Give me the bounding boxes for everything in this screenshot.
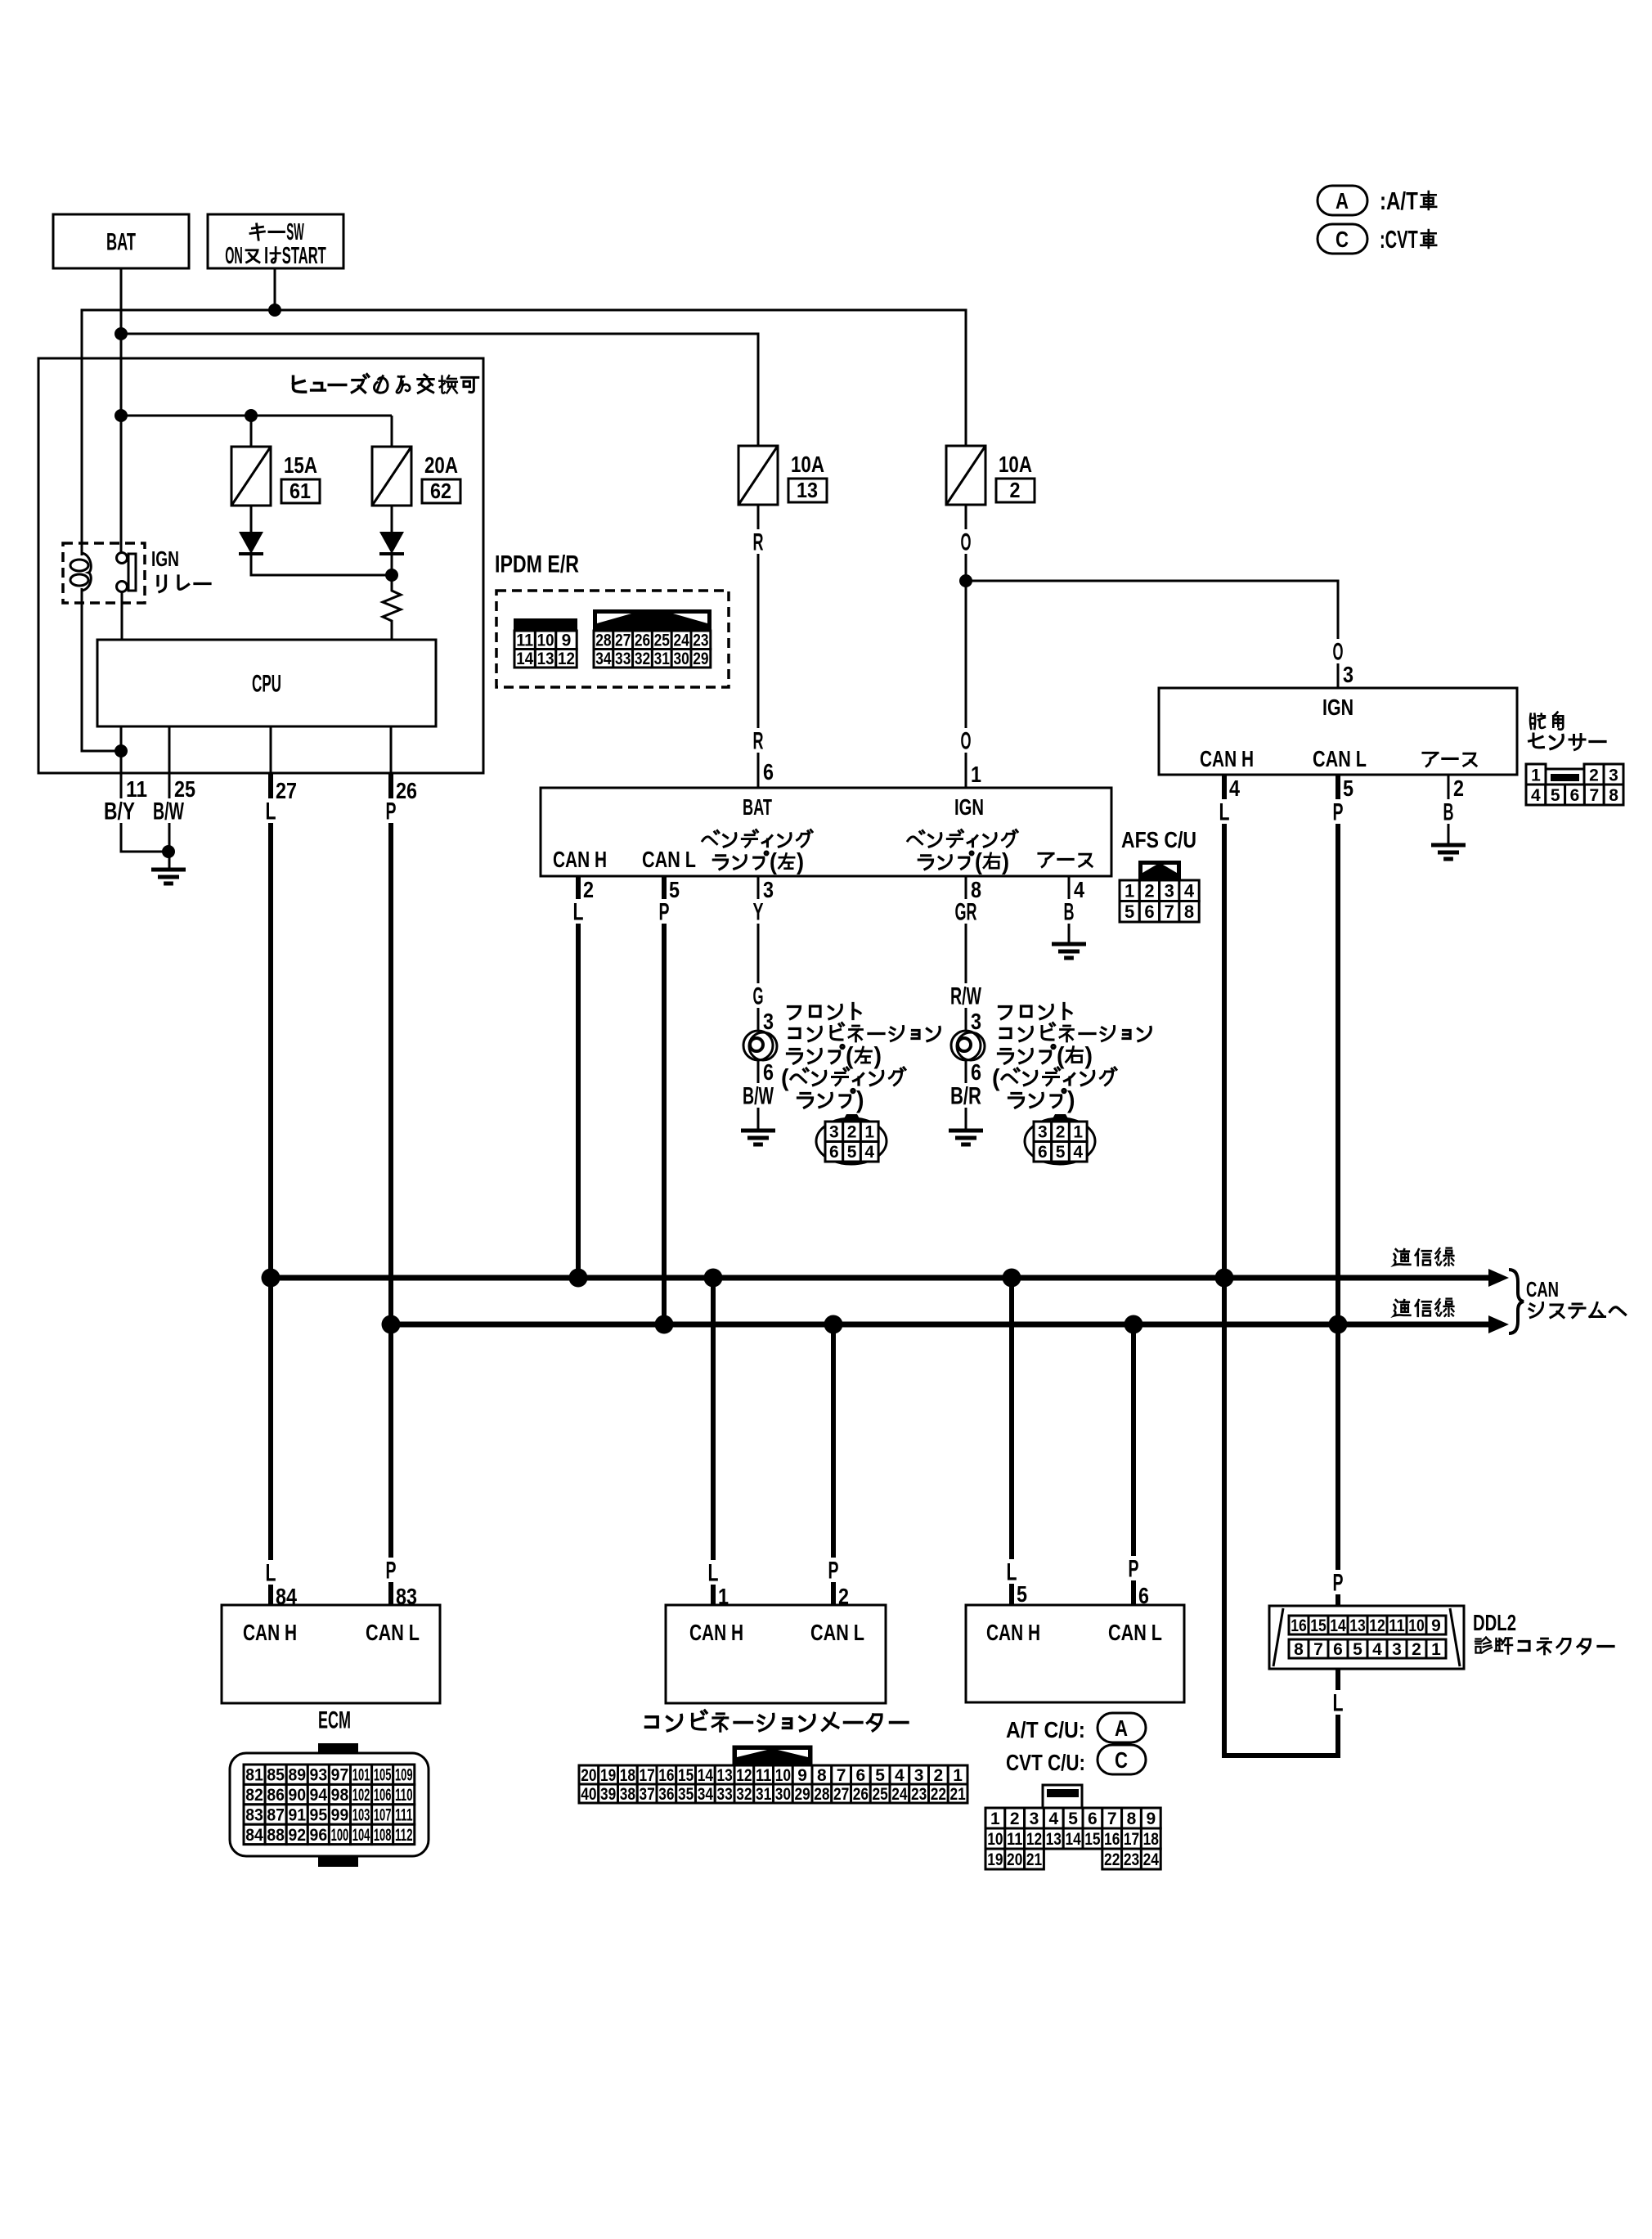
svg-text:35: 35 — [678, 1785, 694, 1804]
svg-text:33: 33 — [615, 650, 631, 668]
svg-text:L: L — [1333, 1690, 1344, 1717]
wire pin 27 inside — [270, 726, 272, 773]
svg-text:17: 17 — [640, 1766, 655, 1785]
svg-text:14: 14 — [1065, 1830, 1081, 1849]
pill A — [1098, 1713, 1146, 1742]
svg-text:2: 2 — [1010, 478, 1021, 502]
svg-text:B/W: B/W — [153, 798, 184, 825]
svg-text:3: 3 — [914, 1766, 924, 1785]
svg-text:B: B — [1064, 899, 1075, 926]
wire relay coil return — [82, 588, 121, 751]
svg-text:4: 4 — [864, 1143, 874, 1162]
svg-text:IPDM E/R: IPDM E/R — [495, 551, 579, 578]
svg-text:32: 32 — [736, 1785, 752, 1804]
svg-text:96: 96 — [310, 1826, 328, 1845]
svg-text:2: 2 — [1056, 1123, 1066, 1142]
svg-text:CAN L: CAN L — [366, 1620, 420, 1645]
svg-text:P: P — [1129, 1556, 1139, 1583]
svg-text:111: 111 — [395, 1806, 413, 1825]
IPDM dashed box — [496, 591, 729, 687]
pill C — [1098, 1745, 1146, 1774]
svg-text:12: 12 — [1026, 1830, 1042, 1849]
svg-text:100: 100 — [331, 1826, 349, 1845]
svg-text:12: 12 — [736, 1766, 752, 1785]
label L above A/T — [1003, 1559, 1021, 1584]
svg-text:24: 24 — [673, 632, 689, 650]
svg-text:8: 8 — [1184, 901, 1194, 922]
wire meter CAN L (P) — [831, 1324, 836, 1605]
svg-text:20A: 20A — [424, 452, 458, 478]
svg-text:6: 6 — [1138, 1583, 1149, 1608]
svg-text:2: 2 — [1453, 776, 1464, 801]
svg-text:11: 11 — [1007, 1830, 1023, 1849]
svg-text:6: 6 — [763, 759, 774, 785]
label O steering drop — [1330, 639, 1347, 663]
svg-text:82: 82 — [245, 1786, 263, 1805]
svg-text:7: 7 — [837, 1766, 846, 1785]
label B steering — [1440, 799, 1457, 824]
fuse 20A no.62 — [372, 447, 411, 506]
svg-text:99: 99 — [331, 1806, 349, 1825]
junction diodes — [385, 569, 398, 582]
svg-text:CAN H: CAN H — [553, 847, 607, 872]
lamp bulb left — [743, 1031, 773, 1060]
svg-text:8: 8 — [1127, 1810, 1137, 1828]
svg-text:39: 39 — [600, 1785, 616, 1804]
svg-text:103: 103 — [352, 1806, 370, 1825]
meter connector — [579, 1765, 599, 1784]
wire B to ground AFS — [1068, 876, 1071, 944]
svg-text:2: 2 — [583, 877, 594, 902]
wire diode D2 down — [391, 554, 393, 575]
label tsushinsen upper — [1394, 1249, 1411, 1265]
label combination meter — [646, 1717, 658, 1727]
key switch ON/START — [208, 214, 343, 268]
lamp bulb right — [951, 1031, 981, 1060]
svg-text:29: 29 — [693, 650, 708, 668]
svg-text:3: 3 — [1165, 881, 1174, 901]
svg-text:1: 1 — [971, 762, 981, 787]
svg-text:BAT: BAT — [743, 794, 772, 820]
fuse 10A no.2 — [946, 446, 985, 505]
svg-text:20: 20 — [581, 1766, 596, 1785]
label B/R lamp right — [947, 1083, 985, 1108]
svg-text:23: 23 — [911, 1785, 927, 1804]
fuse block box (fuses-only-replaceable) — [38, 358, 483, 773]
svg-text:O: O — [961, 728, 972, 755]
svg-text:1: 1 — [1125, 881, 1134, 901]
svg-text:3: 3 — [1392, 1640, 1402, 1659]
svg-text:L: L — [1007, 1559, 1017, 1586]
svg-text:B/R: B/R — [950, 1083, 981, 1110]
svg-text:87: 87 — [267, 1806, 285, 1825]
label Y — [750, 899, 767, 924]
svg-text:ECM: ECM — [318, 1707, 351, 1734]
svg-text:P: P — [386, 798, 397, 825]
svg-text:4: 4 — [1048, 1810, 1058, 1828]
wire diode D1 to junction — [251, 554, 392, 575]
label P above A/T — [1125, 1556, 1142, 1580]
combination meter box — [666, 1605, 886, 1703]
wire BAT down — [120, 268, 123, 416]
svg-text:9: 9 — [1146, 1810, 1156, 1828]
label P above ECM — [383, 1558, 400, 1582]
svg-text:5: 5 — [875, 1766, 885, 1785]
svg-text:16: 16 — [658, 1766, 674, 1785]
svg-text:4: 4 — [895, 1766, 905, 1785]
brace to CAN system — [1509, 1270, 1524, 1333]
junction ground — [162, 845, 175, 858]
svg-text:97: 97 — [331, 1766, 349, 1785]
wire steering earth — [1448, 775, 1450, 845]
svg-text:CAN: CAN — [1526, 1277, 1559, 1302]
svg-text:7: 7 — [1165, 901, 1174, 922]
junction CAN H x1237 — [1003, 1269, 1021, 1288]
junction 15A tap — [245, 409, 258, 422]
wire R fuse13 to AFS BAT — [757, 505, 760, 788]
svg-text:37: 37 — [640, 1785, 655, 1804]
svg-text:P: P — [659, 899, 670, 926]
svg-text:90: 90 — [288, 1786, 306, 1805]
svg-text:106: 106 — [374, 1786, 392, 1805]
wire pin 25 — [168, 726, 171, 773]
svg-text:P: P — [386, 1558, 397, 1585]
wire BAT feed inside fuse block — [121, 415, 392, 417]
svg-text:1: 1 — [1431, 1640, 1441, 1659]
svg-text:L: L — [1219, 799, 1230, 826]
wire 20A to diode — [391, 506, 393, 533]
svg-text:7: 7 — [1313, 1640, 1323, 1659]
label B/W lamp left — [739, 1083, 777, 1108]
svg-text:CAN L: CAN L — [810, 1620, 864, 1645]
junction key-SW — [268, 303, 281, 317]
svg-text:18: 18 — [620, 1766, 636, 1785]
svg-text:IGN: IGN — [954, 794, 984, 820]
power source BAT — [53, 214, 189, 268]
label P steering — [1330, 799, 1347, 824]
label O below fuse — [958, 529, 975, 554]
label earth AFS — [1039, 853, 1053, 866]
wire AFS CAN H (L) — [576, 876, 581, 1278]
svg-text:(: ( — [781, 1065, 789, 1092]
wire Y to left lamp — [757, 876, 760, 1032]
svg-text:92: 92 — [288, 1826, 306, 1845]
svg-text:93: 93 — [310, 1766, 328, 1785]
ECM box — [222, 1605, 440, 1703]
svg-text:27: 27 — [615, 632, 631, 650]
svg-text:CAN H: CAN H — [986, 1620, 1040, 1645]
svg-text:L: L — [708, 1560, 719, 1587]
ground CPU — [151, 868, 186, 872]
svg-text:6: 6 — [1088, 1810, 1098, 1828]
diode D1 — [239, 532, 263, 554]
wire BAT to relay contact — [120, 416, 123, 553]
svg-text:3: 3 — [763, 1009, 774, 1034]
junction CAN L x1633 — [1329, 1315, 1348, 1334]
wire pin 11 — [120, 726, 123, 773]
svg-text:4: 4 — [1074, 877, 1084, 902]
svg-text::A/T: :A/T — [1380, 187, 1418, 215]
CAN H arrowhead — [1488, 1269, 1509, 1287]
svg-text:31: 31 — [654, 650, 671, 668]
svg-text:R: R — [753, 529, 764, 556]
svg-text:IGN: IGN — [151, 546, 179, 571]
svg-text:14: 14 — [516, 650, 533, 668]
AFS control unit box — [541, 788, 1111, 876]
svg-text:1: 1 — [864, 1123, 874, 1142]
label tsushinsen lower — [1394, 1300, 1411, 1315]
svg-text:95: 95 — [310, 1806, 328, 1825]
svg-text:28: 28 — [595, 632, 612, 650]
svg-text:): ) — [797, 848, 804, 874]
wire A/T CAN L (P) — [1131, 1324, 1136, 1605]
wire bulb right to ground — [965, 1059, 967, 1131]
svg-text:13: 13 — [717, 1766, 733, 1785]
wire CAN L from CPU pin 26 (P) — [388, 773, 393, 1605]
A/T CVT control unit box — [966, 1605, 1184, 1702]
svg-text:8: 8 — [1294, 1640, 1304, 1659]
svg-text:13: 13 — [537, 650, 554, 668]
label bending lamp right — [908, 830, 924, 843]
junction CAN H x872 — [704, 1269, 723, 1288]
junction CAN L x1019 — [824, 1315, 843, 1334]
svg-text:1: 1 — [953, 1766, 963, 1785]
label B/W — [150, 798, 187, 823]
svg-text:10A: 10A — [791, 452, 824, 477]
svg-text:2: 2 — [1144, 881, 1154, 901]
IPDM connector A — [514, 619, 577, 631]
svg-text:101: 101 — [352, 1766, 370, 1785]
svg-text:88: 88 — [267, 1826, 285, 1845]
svg-text:10A: 10A — [999, 452, 1032, 477]
svg-text:38: 38 — [620, 1785, 636, 1804]
svg-text:25: 25 — [654, 632, 671, 650]
svg-text:40: 40 — [581, 1785, 596, 1804]
svg-text:2: 2 — [838, 1584, 849, 1609]
wire A/T CAN H (L) — [1009, 1278, 1014, 1605]
svg-text:4: 4 — [1531, 786, 1541, 805]
svg-text:3: 3 — [971, 1009, 981, 1034]
junction CAN H x707 — [569, 1269, 588, 1288]
svg-text:6: 6 — [1144, 901, 1154, 922]
svg-text:84: 84 — [245, 1826, 263, 1845]
steering sensor connector — [1526, 764, 1546, 785]
label steering angle sensor — [1530, 714, 1545, 729]
junction CAN L x1386 — [1125, 1315, 1143, 1334]
junction CAN L x478 — [382, 1315, 401, 1334]
svg-text:26: 26 — [635, 632, 650, 650]
svg-text:30: 30 — [673, 650, 689, 668]
svg-text:108: 108 — [374, 1826, 392, 1845]
svg-text:6: 6 — [1038, 1143, 1048, 1162]
svg-text:15: 15 — [678, 1766, 694, 1785]
svg-text:19: 19 — [600, 1766, 616, 1785]
label GR — [952, 899, 981, 924]
legend pill A (A/T) — [1318, 186, 1367, 215]
junction CAN L x812 — [655, 1315, 674, 1334]
svg-text:5: 5 — [847, 1143, 857, 1162]
svg-text:1: 1 — [1531, 767, 1541, 785]
svg-text:109: 109 — [395, 1766, 413, 1785]
svg-text:14: 14 — [698, 1766, 714, 1785]
svg-text:9: 9 — [562, 632, 572, 650]
svg-text::CVT: :CVT — [1380, 225, 1418, 254]
svg-text:12: 12 — [1369, 1616, 1385, 1635]
svg-text:10: 10 — [987, 1830, 1003, 1849]
CAN L bus line — [391, 1322, 1492, 1328]
svg-text:4: 4 — [1073, 1143, 1083, 1162]
svg-text:5: 5 — [1068, 1810, 1078, 1828]
label bending lamp left — [703, 830, 719, 843]
svg-text:(: ( — [770, 848, 778, 874]
svg-text:): ) — [1002, 848, 1009, 874]
svg-text:CAN L: CAN L — [1313, 746, 1367, 771]
svg-text:84: 84 — [276, 1584, 297, 1609]
label P — [383, 798, 400, 823]
svg-text:(: ( — [846, 1043, 854, 1070]
junction CAN H x331 — [262, 1269, 281, 1288]
svg-text:(: ( — [1057, 1043, 1065, 1070]
svg-text:83: 83 — [396, 1584, 417, 1609]
svg-text:O: O — [961, 529, 972, 556]
label fuse block — [294, 376, 306, 392]
svg-text:CAN L: CAN L — [642, 847, 696, 872]
svg-text:): ) — [856, 1087, 864, 1114]
label L above meter — [705, 1560, 722, 1585]
svg-text:(: ( — [992, 1065, 1000, 1092]
svg-text:P: P — [828, 1558, 839, 1585]
A/T connector tab — [1043, 1785, 1082, 1808]
svg-text:15A: 15A — [284, 452, 317, 478]
svg-text:C: C — [1115, 1747, 1128, 1773]
label L above ECM — [263, 1560, 280, 1585]
svg-text:83: 83 — [245, 1806, 263, 1825]
svg-text:11: 11 — [1389, 1616, 1405, 1635]
ground AFS — [1052, 942, 1086, 946]
svg-text:102: 102 — [352, 1786, 370, 1805]
svg-text:P: P — [1333, 1570, 1344, 1597]
svg-text:16: 16 — [1291, 1616, 1307, 1635]
AFS C/U connector — [1139, 861, 1180, 880]
wire meter CAN H (L) — [711, 1278, 716, 1605]
svg-text:R/W: R/W — [950, 983, 981, 1010]
svg-text:CPU: CPU — [252, 671, 281, 698]
svg-text:3: 3 — [829, 1123, 839, 1142]
svg-text:10: 10 — [1408, 1616, 1425, 1635]
svg-text:1: 1 — [718, 1584, 729, 1609]
svg-text:22: 22 — [931, 1785, 946, 1804]
svg-text:O: O — [1333, 639, 1344, 666]
svg-text:C: C — [1336, 227, 1349, 252]
svg-text:R: R — [753, 728, 764, 755]
svg-text:104: 104 — [352, 1826, 370, 1845]
CAN H bus line — [271, 1275, 1492, 1281]
svg-text:18: 18 — [1143, 1830, 1160, 1849]
relay coil — [70, 560, 88, 571]
svg-text:30: 30 — [775, 1785, 791, 1804]
label R below fuse — [750, 529, 767, 554]
svg-text:7: 7 — [1589, 786, 1599, 805]
svg-text:3: 3 — [763, 877, 774, 902]
svg-text:): ) — [1067, 1087, 1075, 1114]
svg-text:12: 12 — [558, 650, 575, 668]
svg-text:5: 5 — [669, 877, 680, 902]
ECM connector — [318, 1743, 358, 1754]
wire GR to right lamp — [965, 876, 967, 1032]
svg-text:1: 1 — [1073, 1123, 1083, 1142]
svg-text:24: 24 — [1143, 1850, 1160, 1869]
svg-text:GR: GR — [955, 899, 977, 926]
svg-text:24: 24 — [891, 1785, 908, 1804]
svg-text:L: L — [266, 798, 276, 825]
svg-text:1: 1 — [990, 1810, 1000, 1828]
lamp connector right oval — [1025, 1118, 1095, 1164]
svg-text:112: 112 — [395, 1826, 413, 1845]
svg-text:6: 6 — [763, 1059, 774, 1085]
svg-text:CVT C/U:: CVT C/U: — [1006, 1750, 1085, 1775]
label L steering — [1216, 799, 1233, 824]
svg-text:61: 61 — [290, 479, 311, 503]
label front combination lamp left — [788, 1007, 801, 1019]
label front combination lamp right — [999, 1007, 1012, 1019]
wire AFS CAN L (P) — [662, 876, 667, 1324]
wire BAT bus to fuse 13 — [121, 334, 758, 446]
label R above AFS — [750, 728, 767, 753]
svg-text:4: 4 — [1229, 776, 1240, 801]
svg-text:G: G — [753, 983, 764, 1010]
svg-text:5: 5 — [1551, 786, 1560, 805]
svg-text:2: 2 — [1589, 767, 1599, 785]
svg-text:START: START — [282, 242, 326, 268]
svg-text:B: B — [1443, 799, 1454, 826]
wire B/Y to ground — [121, 773, 168, 852]
wire 15A drop — [250, 416, 253, 447]
svg-text:3: 3 — [1030, 1810, 1039, 1828]
svg-text:P: P — [1333, 799, 1344, 826]
A/T connector — [985, 1808, 1005, 1828]
wire bulb left to ground — [757, 1059, 760, 1131]
svg-text:BAT: BAT — [106, 229, 136, 256]
wire O branch to steering IGN box — [966, 581, 1338, 688]
svg-text:15: 15 — [1084, 1830, 1101, 1849]
svg-text:22: 22 — [1104, 1850, 1120, 1869]
svg-text:62: 62 — [430, 479, 451, 503]
IGN relay dashed box — [63, 543, 145, 603]
fuse 15A no.61 — [231, 447, 271, 506]
svg-text:6: 6 — [829, 1143, 839, 1162]
svg-text:6: 6 — [1570, 786, 1580, 805]
svg-text:4: 4 — [1184, 881, 1195, 901]
wire O fuse2 to AFS IGN — [965, 505, 967, 788]
svg-text:5: 5 — [1125, 901, 1134, 922]
wire steering CAN H (L) — [1222, 775, 1227, 1278]
label P above DDL2 — [1330, 1570, 1347, 1594]
svg-text:5: 5 — [1017, 1581, 1027, 1607]
svg-text:10: 10 — [537, 632, 554, 650]
ground steering — [1431, 843, 1466, 847]
svg-text:11: 11 — [516, 632, 533, 650]
lamp connector left oval — [816, 1118, 887, 1164]
svg-text:9: 9 — [797, 1766, 807, 1785]
label L AFS — [570, 899, 587, 924]
svg-text:DDL2: DDL2 — [1473, 1610, 1516, 1635]
meter connector tab — [734, 1747, 811, 1765]
svg-text:6: 6 — [1333, 1640, 1343, 1659]
svg-text:21: 21 — [1026, 1850, 1043, 1869]
label L below DDL2 — [1330, 1690, 1347, 1715]
wire CAN H from CPU pin 27 (L) — [268, 773, 273, 1605]
svg-text:3: 3 — [1609, 767, 1618, 785]
